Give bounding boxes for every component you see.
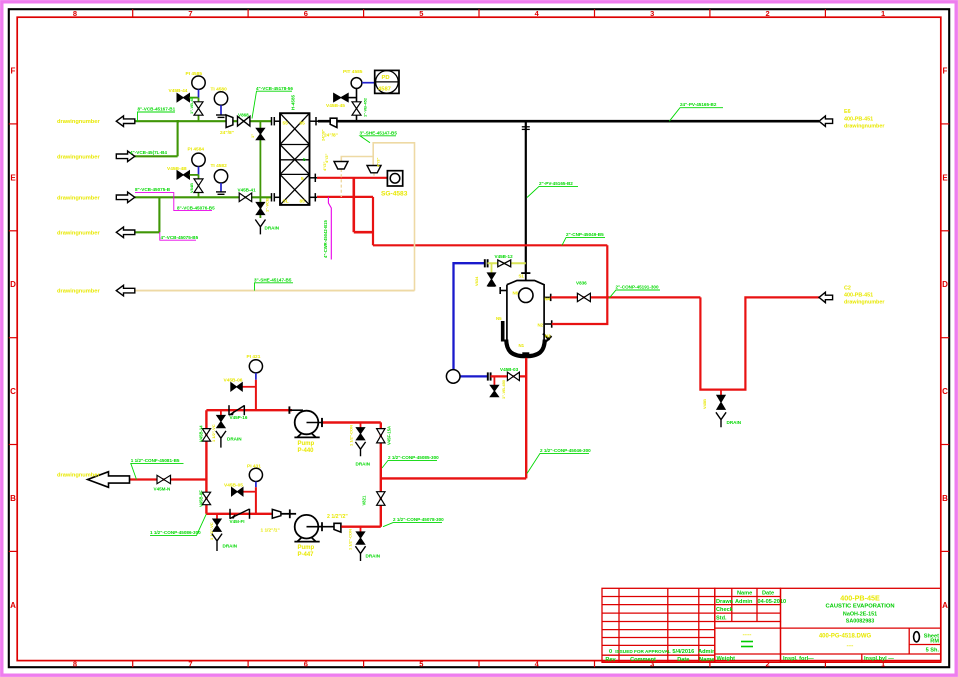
svg-text:Admin: Admin [698,649,716,655]
pump P-440 [289,406,322,453]
svg-text:1 1/2"-VC: 1 1/2"-VC [209,522,214,540]
svg-text:Check: Check [716,607,734,613]
svg-text:drawingnumber: drawingnumber [57,230,100,236]
svg-text:SL: SL [283,199,289,205]
valve V45B-14 upper left [199,425,211,442]
svg-text:N1: N1 [519,343,525,348]
svg-text:5: 5 [303,157,306,162]
header label 24-PV-45165-B2 [669,102,723,121]
svg-text:PI 4584: PI 4584 [188,146,205,152]
pipe black header [318,120,819,123]
off-page connector arrow row3 [116,192,135,203]
zone numbers top [73,9,885,18]
pipe red HX outlet A [317,177,387,179]
svg-text:Date: Date [762,591,774,597]
drain leg line1 to line3 [250,121,265,197]
svg-text:V45B-03: V45B-03 [500,367,519,372]
U loop drain symbol [716,412,742,427]
svg-text:8"-VCB-45167-B1: 8"-VCB-45167-B1 [138,107,176,112]
svg-text:5: 5 [301,176,304,182]
title block name date sub-table [715,588,781,621]
vessel diagonal nozzle N3 [543,334,552,342]
title block main boxes [602,588,941,662]
long line label 2-CNP-45049-B5 [562,232,605,245]
zone tick marks right [941,124,949,552]
instrument PI 4585 [186,71,206,98]
title block revision row text [605,649,716,663]
svg-text:B: B [942,494,948,503]
line label 4-VCB-45075-B5 [160,232,199,240]
svg-text:4"/3": 4"/3" [324,154,329,163]
svg-text:H-4585: H-4585 [291,94,296,110]
svg-text:8: 8 [73,9,77,18]
svg-text:2 1/2"/2": 2 1/2"/2" [327,514,348,520]
spec break blue red bottom [488,372,491,380]
loop label 2 1/2-CONP-45046-300 [527,448,591,474]
svg-text:DRAIN: DRAIN [227,436,242,441]
title block name date text [716,591,786,622]
svg-text:drawingnumber: drawingnumber [57,195,100,201]
svg-text:04-05-2010: 04-05-2010 [758,599,787,605]
svg-text:Inspl. forl—: Inspl. forl— [783,656,814,662]
tan stem funnel1 [340,169,342,197]
svg-text:V45B-8F: V45B-8F [199,490,204,507]
svg-text:A: A [942,601,948,610]
off-page connector arrow E6 [819,116,833,126]
funnel vent 1 [334,162,348,170]
svg-text:D: D [10,280,16,289]
pipe red U seal loop [700,297,819,389]
svg-text:B: B [10,494,16,503]
svg-text:2"-CNP-45049-B5: 2"-CNP-45049-B5 [566,232,604,237]
svg-text:400-PB-451: 400-PB-451 [844,293,873,299]
svg-text:Inspl.byl —: Inspl.byl — [864,656,894,662]
drain symbol upper left [216,431,242,448]
loop label 2 1/2-CONP-45085-300 [382,455,439,468]
zone tick marks top [133,9,826,17]
svg-text:Pump: Pump [298,545,315,551]
vessel nozzle labels [496,274,551,349]
svg-text:85: 85 [300,121,306,127]
vessel right nozzle N2 [544,320,552,327]
HX right nozzle line1 [310,117,319,125]
svg-text:V45B-06: V45B-06 [224,378,243,384]
line label 8-VCB-45167-B1 [138,107,176,122]
svg-text:4587: 4587 [378,86,391,92]
svg-text:TI 4582: TI 4582 [211,163,228,169]
svg-text:2 1/2"-CONP-45085-300: 2 1/2"-CONP-45085-300 [388,455,439,460]
valve V45F-15 [377,426,392,445]
drain valve pump1 discharge [349,422,365,446]
svg-text:ISSUED FOR APPROVAL: ISSUED FOR APPROVAL [615,649,671,654]
svg-text:V45P-16: V45P-16 [230,415,248,420]
svg-text:Std.: Std. [716,615,727,621]
svg-text:V836: V836 [576,281,587,286]
svg-text:2 1/2"-CONP-45046-300: 2 1/2"-CONP-45046-300 [540,448,591,453]
off-page connector arrow row5 [116,285,135,296]
pipe green line 3 [135,196,271,198]
valve V45M-N [154,475,172,491]
svg-text:V45B-4B: V45B-4B [167,166,187,172]
funnel vent 2 [367,166,381,173]
svg-text:P-440: P-440 [298,448,315,454]
label C2 connector [844,286,885,306]
instrument TI 4582 [211,163,228,194]
svg-text:C2: C2 [844,286,851,292]
tan box label 3-SHE-45147-B5 [360,130,398,142]
title block sheet box [914,632,940,654]
svg-text:24"/8": 24"/8" [220,130,234,136]
drain symbol below line3 [255,220,279,235]
valve V868 [238,112,250,126]
pipe red loop return horizontal [381,477,526,479]
svg-text:PI 431: PI 431 [247,464,261,470]
svg-text:P-447: P-447 [298,552,315,558]
spec break HX left line1 [272,117,281,125]
svg-text:7: 7 [188,659,192,668]
pipe red HX outlet B [317,196,373,198]
svg-text:-----: ----- [743,632,752,638]
svg-text:F: F [943,66,948,75]
svg-text:DRAIN: DRAIN [356,462,371,467]
svg-text:24"/8": 24"/8" [324,133,338,139]
svg-text:V834: V834 [474,276,479,286]
off-page connector arrow row1 [116,116,135,127]
svg-text:2: 2 [766,659,770,668]
pipe red vessel outlet down [525,358,527,479]
tan signal box [341,143,414,291]
svg-text:V45B-45: V45B-45 [326,103,345,109]
svg-text:3: 3 [650,9,654,18]
valve V45B-4B [167,166,199,179]
branch label 4-VCB-45178-B6 [252,86,293,119]
zone letters left [10,66,16,610]
pipe red vessel bottom feed [491,375,527,377]
svg-text:CAUSTIC EVAPORATION: CAUSTIC EVAPORATION [825,604,894,610]
pipe red pump1 discharge [322,418,381,427]
drain valve on bottom stub [490,376,506,399]
svg-text:1 1/2"-VC: 1 1/2"-VC [211,424,216,442]
reducer on black header [324,118,338,138]
pipe red pump loop right vertical [380,422,382,526]
svg-text:DRAIN: DRAIN [727,420,742,425]
svg-text:3"-SHE-45147-B5: 3"-SHE-45147-B5 [254,277,292,282]
pipe red vessel right V836 line [551,296,701,298]
svg-text:6: 6 [304,9,308,18]
svg-text:4"-VCB-45(7L-B4: 4"-VCB-45(7L-B4 [130,150,167,155]
svg-text:NaOH-2E-151: NaOH-2E-151 [843,612,877,618]
HX right nozzle red line A [310,174,318,182]
svg-text:6: 6 [304,659,308,668]
pipe red drop B [372,197,374,245]
valve V45B-12 [495,254,514,267]
title block bottom strip text [717,656,895,662]
svg-text:drawingnumber: drawingnumber [57,119,100,125]
pipe red long line to vessel [373,244,607,246]
HX right size labels [321,129,328,171]
valve V821 [362,492,386,506]
drain symbol pump1 [355,442,370,467]
valve V45B-8F lower left [199,490,211,507]
svg-text:E6: E6 [844,109,851,115]
zone letters right [942,66,948,610]
svg-text:V45M-N: V45M-N [154,486,172,491]
svg-text:Pump: Pump [298,441,315,447]
svg-text:400-PB-451: 400-PB-451 [844,116,873,122]
heat exchanger H-4585 [280,113,310,205]
pipe green line 1 [135,120,271,122]
check valve V45P-16 [229,405,248,420]
instrument box PD 4587 [375,70,399,93]
drain valve upper left [211,410,225,442]
drain valve below line3 [256,197,269,218]
outlet label 1 1/2-CONF-45081-B5 [131,458,184,480]
svg-text:S1: S1 [519,274,525,279]
pipe red pump1 suction [206,409,292,411]
svg-text:N6: N6 [513,291,519,296]
svg-text:55: 55 [283,121,289,127]
vessel left gauge bar [501,321,505,342]
pipe lime line to vessel top [488,262,526,264]
svg-text:1: 1 [881,9,885,18]
funnel size labels [324,154,381,167]
pipe red outlet to arrow [130,478,207,480]
instrument PIT 4585 [343,69,375,88]
svg-text:V84B: V84B [189,183,194,193]
svg-text:E: E [10,173,16,182]
off-page connector arrow C2 [819,292,833,302]
svg-text:1 1/2"-CONF-45081-B5: 1 1/2"-CONF-45081-B5 [131,458,180,463]
svg-text:7: 7 [188,9,192,18]
svg-text:V45I-FI: V45I-FI [230,519,245,524]
drain valve lower left [209,514,221,540]
svg-text:TI 4580: TI 4580 [211,86,228,92]
svg-text:1 1/2"-CON: 1 1/2"-CON [348,529,353,550]
vent valve on lime stub [474,263,496,286]
svg-text:V45B-44: V45B-44 [169,88,188,94]
svg-text:drawingnumber: drawingnumber [57,289,100,295]
svg-text:400-PB-45E: 400-PB-45E [840,594,880,603]
svg-text:F: F [11,66,16,75]
instrument TI 4580 [211,86,228,117]
vessel right nozzle N4 [544,294,551,301]
pipe green line 2 [135,121,178,156]
vessel bottom nozzle [522,352,529,358]
svg-text:1"-VB-45: 1"-VB-45 [189,96,194,114]
svg-text:DRAIN: DRAIN [366,554,381,559]
svg-text:DRAIN: DRAIN [223,544,238,549]
svg-text:8"-VCB-45075-B: 8"-VCB-45075-B [135,187,171,192]
pump P-447 [281,509,322,558]
svg-text:V868: V868 [238,112,249,117]
line label 3-SHE-45147-B5 [254,277,293,290]
svg-text:8: 8 [73,659,77,668]
pipe red PI 431 leg [255,487,257,514]
pipe black vertical to vessel [522,121,530,273]
vertical line label 2-PV-45165-B2 [527,181,578,198]
spec break HX left line3 [272,193,281,201]
svg-text:SG-4583: SG-4583 [381,190,408,197]
svg-text:4"-VCB-45075-B5: 4"-VCB-45075-B5 [161,235,199,240]
svg-text:0: 0 [609,649,612,655]
valve V45B-03 [500,367,519,381]
title block dwg number [819,633,872,649]
svg-text:V821: V821 [362,495,367,505]
svg-text:Admin: Admin [735,599,753,605]
svg-text:V45B-14: V45B-14 [199,425,204,442]
svg-text:4"/3": 4"/3" [376,158,381,167]
pipe red pump2 suction [206,513,272,515]
svg-text:1 1/2"-CON: 1 1/2"-CON [349,425,354,446]
svg-text:Weight: Weight [717,656,736,662]
reducer pump2 suction [261,509,281,533]
drain symbol pump2 [355,546,380,561]
label E6 connector [844,109,885,129]
utility connection circle [446,370,460,384]
pipe blue utility [454,263,488,376]
svg-text:V45B-12: V45B-12 [495,254,514,259]
pipe green line 4 [135,197,160,232]
HX corner labels [283,121,306,205]
U loop label 2-CONP-45191-300 [609,285,660,299]
svg-text:24"-PV-45165-B2: 24"-PV-45165-B2 [680,102,717,107]
valve V45B-44 [169,88,199,102]
off-page connector arrow row2 [116,151,135,162]
pipe red pump loop left vertical [205,410,207,514]
svg-text:1"-VB-452: 1"-VB-452 [363,97,368,117]
svg-text:1"-VB-450: 1"-VB-450 [501,379,506,399]
off-page connector arrow row4 [116,227,135,238]
svg-text:5 Sh.: 5 Sh. [926,647,940,653]
svg-text:2: 2 [766,9,770,18]
magenta leader CWR label [323,197,331,260]
zone tick marks left [9,124,17,552]
svg-text:2"-PV-45165-B2: 2"-PV-45165-B2 [539,181,573,186]
svg-text:V45B-41: V45B-41 [238,188,257,193]
svg-text:PI 421: PI 421 [247,354,261,360]
reducer on line 1 [220,115,234,136]
svg-text:2"-CONP-45191-300: 2"-CONP-45191-300 [616,285,659,290]
svg-text:1 1/2"/1": 1 1/2"/1" [261,528,280,534]
svg-text:N4: N4 [545,297,551,302]
svg-text:N5: N5 [496,316,502,321]
svg-text:4"-VCB-45178-56: 4"-VCB-45178-56 [256,86,293,91]
drain symbol lower left [212,534,238,551]
svg-text:V45F-15A: V45F-15A [387,426,392,445]
title block weight box marks [741,632,753,647]
svg-text:2 1/2"-CONP-45078-300: 2 1/2"-CONP-45078-300 [393,517,444,522]
svg-text:1"-VCB: 1"-VCB [265,198,270,212]
vessel NaOH-2E-151 [506,273,545,356]
svg-text:PIT 4585: PIT 4585 [343,69,363,75]
svg-text:drawingnumber: drawingnumber [57,473,100,479]
zone tick marks bottom [133,661,826,668]
svg-text:V45B: V45B [702,399,707,409]
instrument PI 4584 [188,146,206,175]
svg-text:D: D [942,280,948,289]
control valve on PIT leg [352,88,368,121]
tan stem funnel2 [373,173,375,178]
valve V836 [576,281,590,302]
svg-text:5: 5 [419,9,423,18]
HX right nozzle red line B [310,193,318,201]
spec break lime line [485,259,488,267]
svg-text:5: 5 [419,659,423,668]
valve V45B-05 vent [224,482,256,496]
svg-text:C: C [10,387,16,396]
svg-text:E: E [942,173,948,182]
svg-text:DRAIN: DRAIN [265,226,280,231]
pipe red drop A [354,178,373,232]
loop label 2 1/2-CONP-45078-300 [383,517,444,527]
svg-text:drawingnumber: drawingnumber [57,154,100,160]
pipe red right riser [552,245,608,324]
valve V45B-45 vent [326,93,357,109]
control valve on PI 4585 leg [189,96,203,121]
svg-text:A: A [10,601,16,610]
svg-text:PD: PD [382,75,390,81]
instrument PI 421 [247,354,263,380]
svg-text:5/4/2016: 5/4/2016 [672,649,694,655]
svg-text:400-PG-4518.DWG: 400-PG-4518.DWG [819,633,872,639]
zone numbers bottom [73,659,885,668]
svg-text:N2: N2 [538,323,544,328]
line label 8-VCB-45075-B5 [135,187,215,210]
instrument PI 431 [247,464,263,488]
check valve V45I-FI [230,509,250,524]
vessel left nozzle [500,287,507,294]
svg-text:C: C [942,387,948,396]
svg-text:Name: Name [737,591,752,597]
lower loop label 1 1/2-CONP-45086-300 [150,514,206,536]
svg-text:V45B-05: V45B-05 [224,482,243,488]
pipe wheat line 5 [135,290,415,292]
pipe red PI 421 leg [255,380,257,410]
valve V45B-41 [238,188,257,202]
control valve on PI 4584 leg [189,175,203,197]
svg-text:4"-CWR-45042-B15: 4"-CWR-45042-B15 [323,220,328,258]
svg-text:1": 1" [250,134,255,138]
svg-text:1 1/2"-CONP-45086-300: 1 1/2"-CONP-45086-300 [150,530,201,535]
svg-text:SA0082983: SA0082983 [846,619,874,625]
instrument box SG-4583 [381,171,408,198]
pipe pump2 discharge [318,514,381,532]
title block revision table [602,588,715,662]
svg-text:8"-VCB-45076-B5: 8"-VCB-45076-B5 [177,205,215,210]
U loop drain valve [702,390,725,410]
title block project title [825,594,894,625]
svg-text:Drawn: Drawn [716,599,734,605]
svg-text:85: 85 [300,199,306,205]
svg-text:PI 4585: PI 4585 [186,71,203,77]
svg-text:RM: RM [930,638,939,644]
svg-text:N3: N3 [545,334,551,339]
svg-text:drawingnumber: drawingnumber [844,123,885,129]
valve V45B-06 vent [224,378,256,391]
drain valve pump2 discharge [348,527,365,550]
svg-text:----: ---- [847,643,854,649]
svg-text:3"-SHE-45147-B5: 3"-SHE-45147-B5 [360,130,398,135]
svg-text:drawingnumber: drawingnumber [844,300,885,306]
off-page big arrow outlet [88,472,130,488]
